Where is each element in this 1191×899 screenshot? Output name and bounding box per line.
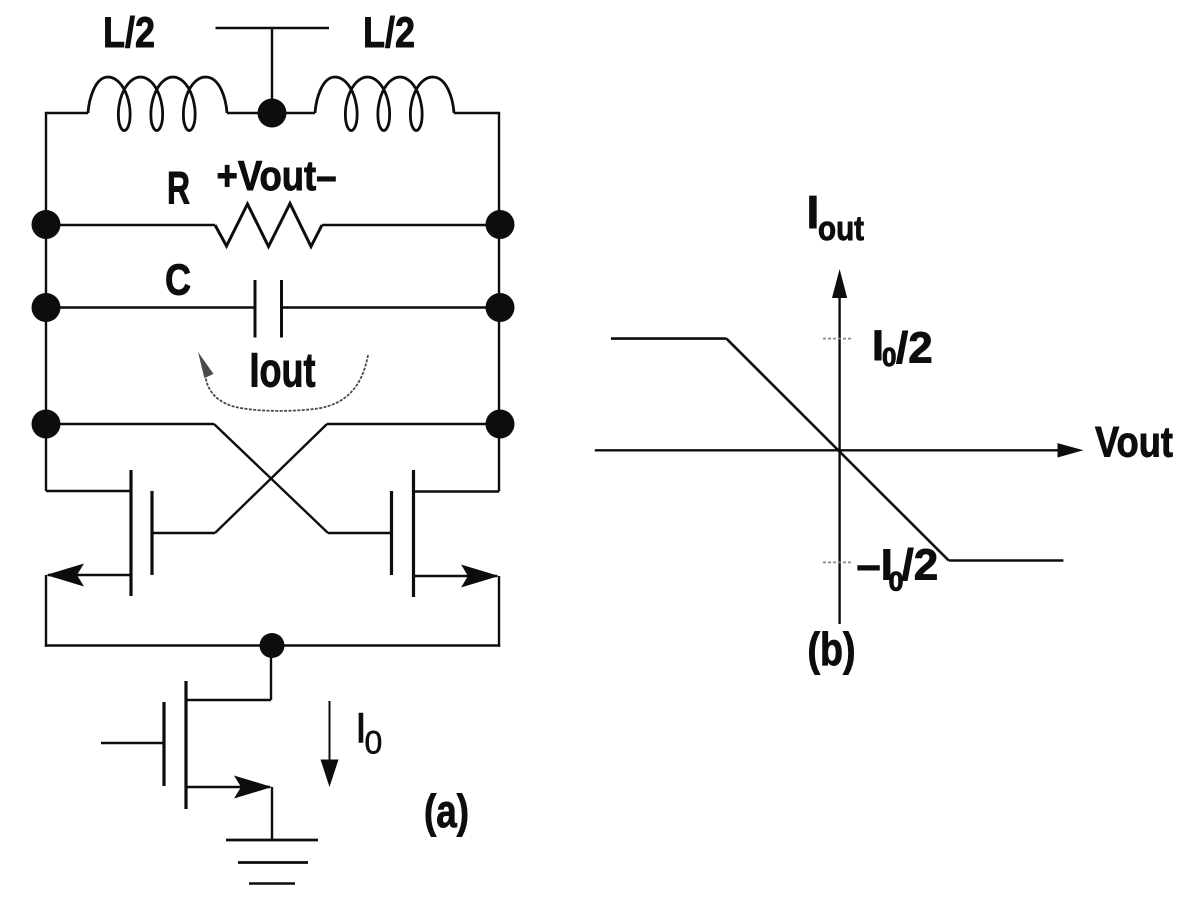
capacitor C plate right	[280, 280, 283, 338]
wire M2 gate	[328, 532, 391, 534]
svg-text:(a): (a)	[424, 785, 469, 837]
tick I0/2	[823, 338, 853, 340]
svg-text:–I: –I	[857, 542, 893, 590]
node dot drain row left	[32, 410, 61, 439]
wire cross-couple right drain to left gate	[215, 424, 327, 533]
inductor L/2 right	[315, 77, 454, 131]
graph curve lower flat	[949, 559, 1064, 562]
transistor M1 gate bar	[150, 491, 153, 575]
svg-text:R: R	[167, 163, 190, 214]
node dot resistor left	[32, 210, 61, 239]
wire M2 source	[414, 575, 498, 577]
arrowhead Iout	[198, 352, 214, 378]
current arrow I0	[329, 701, 331, 762]
wire right rail down to M2 drain	[498, 424, 500, 492]
svg-text:0: 0	[882, 342, 896, 372]
wire resistor row left	[46, 224, 215, 226]
graph curve diagonal	[726, 339, 948, 561]
arrowhead M2 source	[461, 565, 499, 588]
wire coil center tap	[227, 112, 315, 114]
ground	[226, 839, 318, 842]
wire left rail down to M1 drain	[45, 424, 47, 491]
graph curve upper flat	[611, 337, 727, 340]
svg-text:/2: /2	[902, 541, 939, 590]
wire left coil to left rail	[46, 113, 88, 225]
transistor M2 channel bar	[412, 470, 415, 597]
node dot capacitor left	[32, 293, 61, 322]
arrowhead M3 source	[234, 776, 272, 799]
wire capacitor row left	[46, 306, 255, 308]
wire tail dot to M3 drain	[270, 646, 272, 701]
arrowhead M1 source	[46, 564, 84, 587]
transistor M1 channel bar	[129, 470, 132, 596]
wire M2 drain	[414, 490, 500, 492]
wire M1 source	[48, 574, 131, 576]
inductor L/2 left	[88, 77, 227, 131]
tick -I0/2	[823, 561, 851, 563]
svg-text:L/2: L/2	[103, 9, 155, 57]
wire left vertical to drain row	[45, 225, 47, 425]
wire M1 gate	[153, 532, 215, 534]
wire supply to center tap	[271, 28, 273, 105]
wire tail rail	[45, 644, 500, 646]
node center tap dot	[258, 99, 287, 128]
wire right vertical to drain row	[498, 225, 500, 425]
svg-text:C: C	[165, 256, 191, 305]
wire M3 gate lead	[101, 742, 164, 744]
svg-text:+Vout–: +Vout–	[217, 152, 337, 199]
graph x-axis Vout	[595, 449, 1060, 451]
wire M1 drain	[46, 490, 131, 492]
node dot capacitor right	[486, 293, 515, 322]
svg-text:L/2: L/2	[363, 9, 415, 57]
transistor M2 gate bar	[390, 491, 393, 575]
wire M3 source to ground	[271, 787, 273, 840]
wire capacitor row right	[282, 306, 500, 308]
wire M3 drain	[186, 699, 271, 701]
wire drain row right	[327, 423, 499, 425]
svg-text:Iout: Iout	[250, 345, 316, 398]
wire M3 source	[186, 786, 270, 788]
wire left rail M1 source down to tail rail	[45, 575, 47, 647]
wire cross-couple left drain to right gate	[214, 424, 328, 533]
wire right coil to right rail	[454, 113, 499, 225]
node dot resistor right	[486, 210, 515, 239]
transistor M3 channel bar	[184, 681, 187, 809]
graph y-axis Iout	[838, 295, 840, 624]
svg-text:/2: /2	[896, 323, 933, 372]
wire drain row left	[46, 423, 214, 425]
capacitor C plate left	[254, 280, 257, 338]
curved arrow Iout	[205, 355, 368, 411]
svg-text:Vout: Vout	[1095, 419, 1173, 467]
node dot tail	[260, 633, 285, 658]
resistor R	[215, 204, 322, 247]
svg-text:0: 0	[365, 725, 383, 761]
node dot drain row right	[486, 410, 515, 439]
wire resistor row right	[322, 224, 499, 226]
svg-text:(b): (b)	[808, 623, 856, 675]
transistor M3 gate bar	[162, 702, 165, 786]
wire right rail M2 source down to tail rail	[498, 576, 500, 647]
svg-text:out: out	[818, 210, 864, 248]
supply rail bar	[216, 27, 330, 29]
